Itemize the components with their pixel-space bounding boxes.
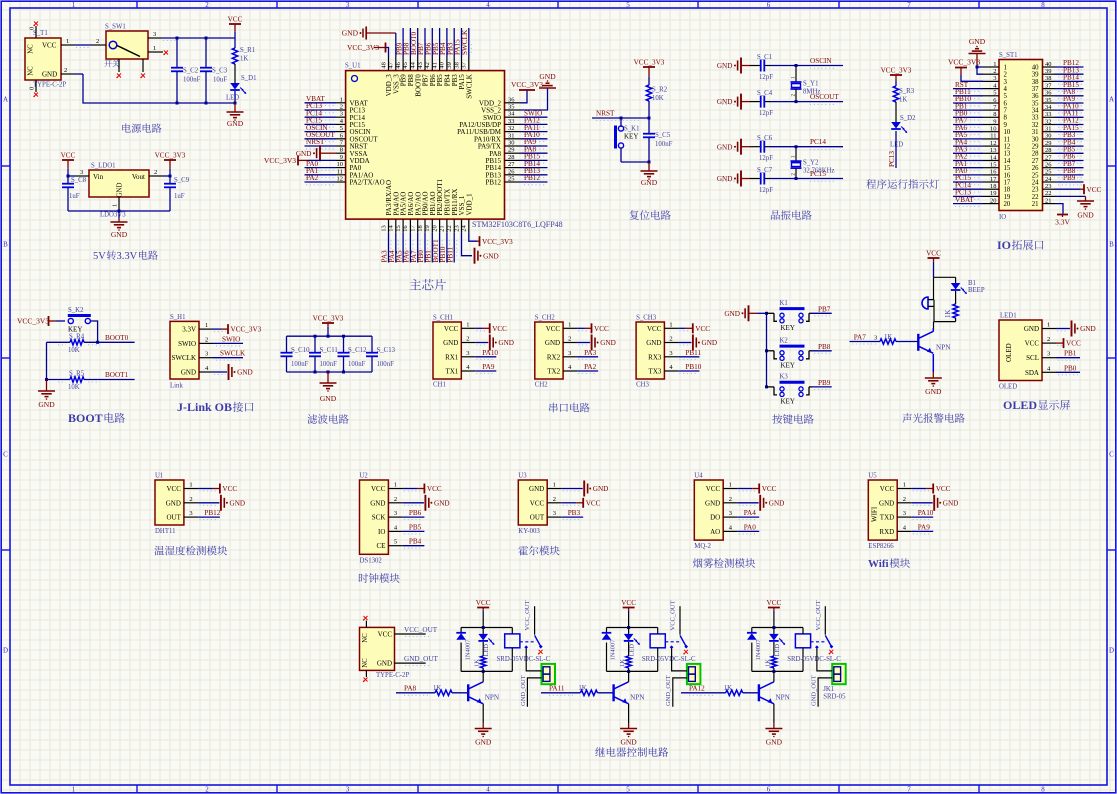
label OLED显示屏 [1003, 398, 1070, 412]
svg-text:2: 2 [154, 169, 157, 176]
svg-text:VCC: VCC [492, 325, 507, 333]
svg-text:GND: GND [545, 339, 560, 347]
svg-text:3: 3 [729, 510, 732, 517]
svg-text:RXD: RXD [879, 528, 894, 536]
svg-text:27: 27 [1045, 154, 1052, 161]
power VCC_3V3 (reset) [634, 59, 665, 86]
svg-text:VDD_1: VDD_1 [465, 193, 473, 216]
svg-text:2: 2 [205, 786, 209, 794]
svg-text:U2: U2 [360, 473, 369, 480]
wire and net PC13 (runled) [888, 131, 896, 168]
svg-text:GND: GND [641, 178, 658, 187]
svg-text:1: 1 [72, 1, 76, 9]
svg-text:NPN: NPN [775, 694, 790, 702]
ground GND (st1 pin22) [1055, 196, 1095, 219]
label 温湿度检测模块 [154, 546, 227, 556]
svg-text:5: 5 [1004, 93, 1008, 100]
power VCC_3V3 (boot) [17, 316, 65, 326]
svg-text:5: 5 [340, 125, 343, 132]
svg-text:8MHz: 8MHz [803, 89, 820, 96]
svg-text:S_SW1: S_SW1 [105, 24, 126, 31]
svg-text:24: 24 [1045, 176, 1052, 183]
svg-text:21: 21 [439, 225, 446, 232]
svg-text:A: A [1109, 96, 1114, 104]
svg-text:NC: NC [362, 658, 369, 668]
svg-text:36: 36 [1045, 90, 1052, 97]
svg-text:21: 21 [1032, 201, 1039, 208]
svg-text:PA9: PA9 [482, 363, 495, 371]
svg-text:S_H1: S_H1 [170, 314, 186, 321]
power VCC (U1 pin1) [198, 484, 237, 494]
svg-text:12pF: 12pF [759, 155, 773, 162]
display module LED1 OLED [999, 313, 1056, 391]
net PA10 (S_CH1 pin3) [475, 349, 498, 360]
svg-text:VCC: VCC [371, 485, 386, 493]
svg-text:K3: K3 [780, 374, 789, 381]
svg-text:S_C3: S_C3 [212, 68, 228, 75]
svg-text:40: 40 [1032, 64, 1039, 71]
connector S_H1 J-Link [170, 314, 213, 390]
power VCC (U5 pin1) [912, 484, 951, 494]
svg-text:5: 5 [626, 1, 630, 9]
svg-text:GND: GND [320, 394, 337, 403]
svg-text:GND: GND [969, 37, 986, 46]
label 电源电路 [122, 123, 161, 132]
svg-text:GND: GND [600, 339, 616, 347]
svg-text:8: 8 [1041, 1, 1045, 9]
svg-text:20: 20 [1004, 201, 1011, 208]
svg-text:GND: GND [717, 62, 733, 70]
capacitor S_C12 [338, 336, 368, 372]
svg-text:VCC: VCC [1025, 340, 1040, 348]
svg-text:GND: GND [117, 183, 124, 198]
power VCC_3V3 (VDDA pin9) [264, 155, 336, 165]
svg-text:NC: NC [28, 44, 35, 54]
svg-text:1: 1 [394, 482, 397, 489]
net PB9 (key K3) [812, 379, 832, 390]
svg-text:1K: 1K [764, 659, 771, 667]
wire collector/emitter (alarm) [932, 354, 934, 372]
resistor S_R3 [893, 86, 914, 104]
svg-text:LED: LED [629, 644, 636, 657]
net PB7 (key K1) [812, 305, 832, 316]
svg-text:PB12: PB12 [524, 174, 540, 182]
svg-text:PB0: PB0 [1064, 364, 1077, 372]
svg-text:S_K2: S_K2 [68, 307, 84, 314]
svg-text:10K: 10K [652, 95, 664, 102]
label 按键电路 [772, 414, 813, 424]
svg-text:GND_OUT: GND_OUT [520, 675, 527, 706]
svg-text:28: 28 [508, 154, 515, 161]
svg-text:1K: 1K [474, 659, 481, 667]
svg-text:1: 1 [903, 482, 906, 489]
svg-text:30: 30 [508, 140, 515, 147]
wire relay bottom rail (PA11) [607, 670, 658, 673]
svg-text:PA3: PA3 [584, 349, 597, 357]
resistor S_R4 and BOOT0 [47, 334, 135, 354]
resistor S_R1 [232, 38, 255, 83]
svg-text:9: 9 [340, 154, 343, 161]
junction rail C3 [205, 102, 208, 105]
svg-text:U4: U4 [694, 473, 703, 480]
LED (relay PA12) [769, 628, 785, 657]
svg-text:SRD-05VDC-SL-C: SRD-05VDC-SL-C [497, 656, 551, 663]
label 声光报警电路 [902, 413, 964, 423]
svg-text:NC: NC [28, 66, 35, 76]
svg-text:2: 2 [669, 336, 672, 343]
switch S_SW1 [91, 24, 163, 73]
svg-text:7: 7 [907, 1, 911, 9]
svg-text:SRD-05: SRD-05 [823, 694, 846, 701]
svg-text:GND: GND [769, 499, 785, 507]
svg-text:VCC: VCC [594, 325, 609, 333]
svg-text:22: 22 [446, 225, 453, 232]
power VCC (alarm) [926, 250, 941, 278]
wire SW1 pin3 to VCC node [162, 38, 235, 41]
svg-text:1: 1 [66, 38, 69, 45]
svg-text:VCC: VCC [1087, 186, 1102, 194]
svg-text:GND: GND [483, 252, 499, 260]
svg-text:Link: Link [170, 383, 183, 390]
svg-text:VCC: VCC [621, 599, 636, 607]
svg-text:36: 36 [508, 96, 515, 103]
net PB1 (oled pin3) [1056, 350, 1080, 361]
svg-text:2: 2 [903, 496, 906, 503]
svg-text:34: 34 [508, 111, 515, 118]
svg-text:VCC: VCC [695, 325, 710, 333]
label BOOT电路 [68, 411, 125, 425]
svg-text:GND: GND [705, 499, 720, 507]
IC U1 STM32F103C8T6 LQFP48 [336, 57, 563, 233]
svg-text:26: 26 [1032, 165, 1039, 172]
svg-text:3: 3 [153, 31, 156, 38]
ground GND (S_CH1 pin2) [475, 335, 514, 351]
svg-text:1: 1 [112, 204, 119, 207]
svg-text:3: 3 [903, 510, 906, 517]
svg-text:TXD: TXD [880, 514, 894, 522]
net PA9 (S_CH1 pin4) [475, 363, 496, 374]
svg-text:2: 2 [553, 496, 556, 503]
svg-text:12pF: 12pF [759, 110, 773, 117]
svg-text:10K: 10K [68, 384, 80, 391]
wire relay top rail (PA11) [607, 626, 658, 629]
svg-text:32: 32 [1045, 118, 1052, 125]
svg-text:GND: GND [593, 485, 609, 493]
svg-text:VCC: VCC [228, 16, 243, 24]
resistor S_R2 [646, 85, 667, 102]
wire boot left vertical [45, 342, 48, 381]
net PA7 base drive [850, 334, 919, 345]
svg-text:AO: AO [710, 528, 720, 536]
svg-text:B1: B1 [968, 280, 976, 287]
svg-text:LED: LED [774, 644, 781, 657]
power VCC_3V3 (VDD_1 pin24) [469, 233, 513, 246]
svg-text:1: 1 [1004, 64, 1007, 71]
net PB4 (U2 pin5) [403, 538, 425, 549]
svg-text:23: 23 [453, 225, 460, 232]
svg-text:A: A [3, 96, 8, 104]
svg-text:1: 1 [669, 321, 672, 328]
connector S_ST1 IO header [983, 52, 1055, 221]
svg-text:4: 4 [486, 786, 490, 794]
svg-text:29: 29 [1032, 144, 1039, 151]
svg-text:1K: 1K [884, 334, 892, 341]
no-connect x on S_T1 bottom pin [33, 93, 38, 98]
svg-text:KEY: KEY [781, 397, 795, 405]
svg-text:NRST: NRST [596, 110, 615, 118]
power VCC_3V3 (st1 pin3) [948, 58, 983, 82]
wire T1 pin1 to SW1 [75, 45, 91, 48]
net PA8 base drive [396, 684, 468, 695]
svg-text:15: 15 [1004, 165, 1011, 172]
svg-text:GND: GND [717, 143, 733, 151]
svg-text:SWIO: SWIO [222, 335, 240, 343]
connector S_CH2 serial [535, 315, 577, 389]
connector S_CH3 serial [636, 315, 678, 389]
svg-text:S_T1: S_T1 [33, 30, 48, 37]
net PA4 (U4 pin3) [738, 509, 760, 520]
svg-text:U3: U3 [518, 473, 527, 480]
svg-text:2: 2 [568, 336, 571, 343]
svg-text:VCC: VCC [427, 485, 442, 493]
svg-text:VCC: VCC [378, 631, 393, 639]
wires and net labels chip top pins [395, 28, 471, 57]
svg-text:15: 15 [990, 162, 997, 169]
svg-text:NPN: NPN [936, 344, 951, 352]
svg-text:GND: GND [370, 499, 385, 507]
svg-text:S_C2: S_C2 [183, 68, 199, 75]
resistor 1K (alarm led) [945, 304, 959, 322]
svg-text:S_C9: S_C9 [174, 177, 190, 184]
net SWCLK (jlink pin3) [213, 350, 246, 361]
junction rail D1 [234, 102, 237, 105]
svg-text:16: 16 [1004, 172, 1011, 179]
svg-text:S_C8: S_C8 [71, 177, 87, 184]
svg-text:WIFI: WIFI [870, 506, 878, 522]
ground GND (U1 pin2) [198, 495, 245, 511]
svg-text:35: 35 [1032, 100, 1039, 107]
no-connect x (x1 top) [363, 616, 368, 621]
svg-text:31: 31 [508, 132, 515, 139]
svg-text:100nF: 100nF [655, 141, 673, 148]
net PB11 (S_CH3 pin3) [678, 349, 701, 360]
ground GND (reset) [641, 162, 658, 187]
svg-text:S_LDO1: S_LDO1 [91, 163, 116, 170]
svg-text:14: 14 [1004, 158, 1011, 165]
wires and net labels chip bottom pins 13-22 [381, 233, 457, 263]
connector TYPE-C-2P (relay supply) [360, 621, 426, 679]
ground GND (VSS_1 pin23) [462, 233, 499, 264]
svg-text:1: 1 [553, 482, 556, 489]
svg-text:MQ-2: MQ-2 [694, 543, 711, 550]
svg-text:22: 22 [1032, 194, 1039, 201]
svg-text:33: 33 [1045, 111, 1052, 118]
crystal S_Y1 8MHz [791, 64, 821, 103]
svg-text:1: 1 [189, 482, 192, 489]
capacitor S_C9 [164, 176, 190, 211]
svg-text:TYPE-C-2P: TYPE-C-2P [376, 672, 409, 679]
svg-text:PB11: PB11 [685, 349, 701, 357]
svg-text:40: 40 [1045, 61, 1052, 68]
power port VCC [228, 16, 243, 39]
svg-text:34: 34 [1032, 108, 1039, 115]
wire nrst net [592, 101, 649, 121]
svg-text:100nF: 100nF [348, 361, 366, 368]
svg-text:20: 20 [990, 197, 997, 204]
label Wifi模块 [868, 558, 910, 570]
svg-text:28: 28 [1032, 151, 1039, 158]
svg-text:VCC_3V3: VCC_3V3 [313, 315, 344, 323]
svg-text:10: 10 [1004, 129, 1011, 136]
svg-text:S_CH3: S_CH3 [636, 315, 657, 322]
ground GND (U2 pin2) [403, 495, 450, 511]
svg-text:VCC: VCC [42, 41, 57, 49]
svg-text:39: 39 [1045, 68, 1052, 75]
svg-text:SRD-05VDC-SL-C: SRD-05VDC-SL-C [642, 656, 696, 663]
svg-text:1K: 1K [619, 659, 626, 667]
svg-text:2: 2 [729, 496, 732, 503]
svg-text:19: 19 [424, 225, 431, 232]
svg-text:GND_OUT: GND_OUT [404, 655, 439, 663]
relay switch contacts (PA11) [665, 600, 688, 654]
ground GND (boot) [38, 380, 55, 410]
svg-text:S_R4: S_R4 [69, 334, 85, 341]
label 烟雾检测模块 [693, 558, 755, 568]
wire keys left vertical [765, 312, 768, 389]
svg-text:GND_OUT: GND_OUT [665, 675, 672, 706]
svg-text:2: 2 [64, 67, 67, 74]
svg-text:3.3V: 3.3V [1055, 218, 1070, 227]
net PB3 (U3 pin3) [562, 509, 584, 520]
svg-text:OLED: OLED [999, 384, 1017, 391]
svg-text:GND: GND [1024, 325, 1039, 333]
svg-text:38: 38 [1032, 79, 1039, 86]
svg-text:RX2: RX2 [547, 353, 561, 361]
svg-text:13: 13 [380, 225, 387, 232]
svg-text:PA4: PA4 [744, 509, 757, 517]
transistor NPN (relay PA12) [759, 671, 791, 723]
connector S_CH1 serial [433, 315, 475, 389]
svg-text:S_C6: S_C6 [757, 135, 773, 142]
svg-text:VCC: VCC [1066, 340, 1081, 348]
svg-text:PA0: PA0 [744, 523, 757, 531]
svg-text:VCC_3V3: VCC_3V3 [948, 58, 980, 67]
svg-text:25: 25 [1032, 172, 1039, 179]
svg-text:5: 5 [993, 90, 996, 97]
svg-text:C: C [1109, 451, 1114, 459]
svg-text:3: 3 [874, 335, 877, 342]
svg-text:40: 40 [439, 62, 446, 69]
svg-text:10uF: 10uF [213, 77, 227, 84]
net label SRD-05VDC-SL-C (PA12) [787, 656, 841, 663]
svg-text:PA8: PA8 [404, 684, 417, 692]
svg-text:48: 48 [380, 62, 387, 69]
svg-text:IO: IO [378, 528, 385, 536]
wire T1 gnd to rail [75, 74, 235, 103]
transistor NPN (relay PA8) [468, 671, 500, 723]
svg-text:1: 1 [1047, 322, 1050, 329]
svg-text:S_Y1: S_Y1 [803, 81, 819, 88]
LED (relay PA8) [478, 628, 494, 657]
svg-text:GND: GND [1077, 211, 1094, 220]
svg-text:38: 38 [1045, 75, 1052, 82]
svg-text:5V: 5V [93, 251, 106, 262]
svg-text:6: 6 [767, 786, 771, 794]
svg-text:GND: GND [475, 738, 492, 747]
svg-text:BEEP: BEEP [968, 287, 985, 294]
svg-text:5: 5 [626, 786, 630, 794]
svg-text:SCL: SCL [1026, 354, 1039, 362]
svg-text:100nF: 100nF [377, 361, 395, 368]
net PB12 (U1 pin3) [198, 509, 220, 520]
capacitor S_C3 [200, 38, 228, 103]
svg-text:12: 12 [990, 140, 997, 147]
svg-text:GND: GND [943, 499, 959, 507]
svg-text:18: 18 [1004, 187, 1011, 194]
svg-text:1: 1 [153, 45, 156, 52]
svg-text:BOOT: BOOT [68, 411, 103, 425]
svg-text:12: 12 [1004, 144, 1011, 151]
power VCC (st1 pin23) [1055, 184, 1102, 194]
crystal S_Y2 32.768KHz [791, 145, 835, 180]
wires and net labels chip left pins 1-7 [305, 95, 337, 149]
svg-text:GND: GND [646, 339, 661, 347]
svg-text:PA2/TX/AO: PA2/TX/AO [350, 179, 385, 187]
key K2 [767, 338, 813, 370]
svg-text:KEY: KEY [781, 324, 795, 332]
wire relay top rail (PA8) [461, 626, 512, 629]
net SWIO (jlink pin2) [213, 335, 243, 346]
LED (relay PA11) [624, 628, 640, 657]
svg-text:25: 25 [508, 176, 515, 183]
svg-text:26: 26 [1045, 162, 1052, 169]
junction at C2 top [176, 37, 179, 40]
svg-text:GND: GND [766, 738, 783, 747]
svg-text:LED: LED [483, 644, 490, 657]
capacitor S_C4 and OSCOUT net [717, 90, 843, 117]
svg-text:16: 16 [990, 169, 997, 176]
svg-text:2: 2 [189, 496, 192, 503]
ground GND (U3 pin1) [562, 481, 609, 497]
svg-text:3: 3 [1047, 351, 1050, 358]
svg-text:IO: IO [999, 214, 1006, 221]
svg-text:GND: GND [717, 175, 733, 183]
wire relay common to terminal (PA8) [526, 649, 541, 671]
svg-text:1: 1 [72, 786, 76, 794]
svg-text:7: 7 [1004, 108, 1008, 115]
svg-text:VCC_3V3: VCC_3V3 [155, 152, 186, 160]
svg-text:23: 23 [1032, 187, 1039, 194]
svg-text:37: 37 [1032, 86, 1039, 93]
svg-text:3: 3 [205, 351, 208, 358]
svg-text:S_R1: S_R1 [240, 47, 255, 54]
wire vout to 3v3 [163, 175, 172, 178]
label 5V转3.3V电路 [93, 250, 158, 262]
svg-text:GND_OUT: GND_OUT [811, 675, 818, 706]
svg-text:19: 19 [990, 190, 997, 197]
power VCC_3V3 (chip top) [347, 43, 389, 58]
ground GND (oled pin1) [1056, 321, 1096, 337]
svg-text:13: 13 [990, 147, 997, 154]
no-connect x on SW1 pin1 [163, 51, 168, 56]
svg-text:B: B [3, 241, 8, 249]
svg-text:1uF: 1uF [174, 193, 185, 200]
net PA10 (U5 pin3) [912, 509, 934, 520]
svg-text:LED1: LED1 [1000, 313, 1017, 320]
label 串口电路 [549, 403, 590, 413]
svg-text:S_C4: S_C4 [757, 90, 773, 97]
voltage regulator S_LDO1 LDO3V3 [75, 163, 163, 219]
